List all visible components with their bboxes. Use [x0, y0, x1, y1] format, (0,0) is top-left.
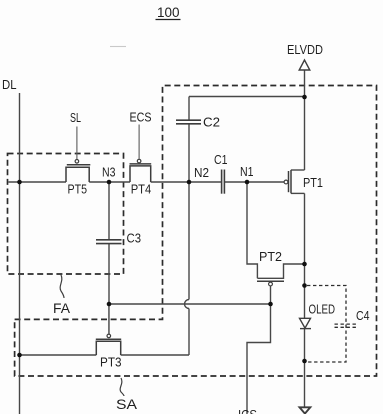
svg-text:C1: C1 [214, 152, 228, 167]
svg-text:ICS: ICS [238, 407, 257, 414]
svg-text:PT2: PT2 [259, 249, 282, 264]
svg-text:N2: N2 [194, 165, 209, 180]
svg-text:FA: FA [53, 300, 71, 316]
svg-text:ECS: ECS [130, 110, 152, 125]
svg-text:PT5: PT5 [68, 182, 88, 197]
svg-text:PT1: PT1 [303, 175, 323, 190]
svg-text:DL: DL [2, 77, 17, 92]
svg-text:ELVDD: ELVDD [287, 42, 323, 57]
svg-text:SA: SA [116, 396, 138, 412]
svg-text:PT3: PT3 [100, 355, 122, 370]
svg-text:C4: C4 [356, 308, 370, 323]
svg-text:N1: N1 [240, 164, 254, 179]
svg-text:100: 100 [157, 5, 180, 20]
svg-text:C3: C3 [127, 231, 142, 246]
svg-text:C2: C2 [203, 115, 220, 130]
svg-text:OLED: OLED [309, 302, 336, 317]
svg-text:SL: SL [70, 110, 81, 125]
svg-text:N3: N3 [102, 165, 116, 180]
svg-text:PT4: PT4 [131, 182, 152, 197]
